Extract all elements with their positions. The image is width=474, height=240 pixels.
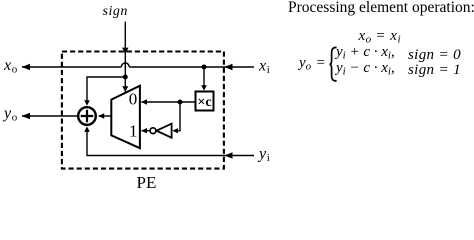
svg-text:o: o xyxy=(12,112,18,124)
svg-text:i: i xyxy=(267,64,270,76)
node: junction dot on c·x wire feeding inverter xyxy=(178,100,183,105)
arrowhead y_i entering PE box (pointing left) xyxy=(224,152,232,159)
svg-text:1: 1 xyxy=(129,122,138,141)
wire: mux output to adder right input xyxy=(98,113,111,118)
wire: multiplier output to mux input 0 xyxy=(141,99,195,104)
wire: branch down from c·x wire to inverter input xyxy=(172,102,180,133)
wire: y_i horizontal line into box and up to adder bottom xyxy=(84,126,254,155)
svg-text:y: y xyxy=(257,145,267,162)
svg-text:y: y xyxy=(2,105,12,122)
arrowhead at x_o output (left, pointing left) xyxy=(22,64,30,71)
equation x_o = x_i xyxy=(359,28,401,45)
mux U1 (trapezoid 2:1 multiplexer) xyxy=(111,86,140,149)
inverter bubble xyxy=(150,128,156,134)
wire: inverter output to mux input 1 xyxy=(141,128,150,133)
svg-text:0: 0 xyxy=(129,89,138,108)
equation y_o = xyxy=(299,55,311,72)
wire: x_i to x_o horizontal line with hop over sign wire xyxy=(22,63,254,67)
node: junction dot on sign wire for carry-in branch xyxy=(123,75,128,80)
equation case 1 xyxy=(336,44,395,61)
wire: carry-in branch from sign dot to adder top xyxy=(84,77,125,106)
svg-text:×c: ×c xyxy=(197,95,211,110)
arrowhead x_i entering PE box (pointing left) xyxy=(224,64,232,71)
arrowhead sign into mux select (pointing down) xyxy=(122,86,128,92)
arrowhead at y_o output (pointing left) xyxy=(22,113,30,120)
svg-text:o: o xyxy=(12,64,18,76)
node: junction dot on x wire feeding multiplier xyxy=(202,65,207,70)
svg-text:PE: PE xyxy=(137,173,157,190)
adder U2 (circle with plus) xyxy=(78,107,96,125)
PE dashed boundary box xyxy=(62,52,224,169)
inverter U4 (triangle) xyxy=(156,124,171,138)
equation case 2 xyxy=(336,60,395,77)
multiplier U3 box ×c xyxy=(196,92,214,111)
wire: y_o output from adder to left xyxy=(22,115,78,117)
title: Processing element operation: xyxy=(288,0,474,17)
wire: x line down to multiplier ×c xyxy=(201,67,207,91)
svg-text:i: i xyxy=(267,152,270,164)
arrowhead sign entering PE box (pointing down) xyxy=(122,48,128,55)
equation case brace xyxy=(330,47,337,81)
svg-text:sign: sign xyxy=(103,4,128,19)
svg-text:x: x xyxy=(3,57,11,74)
svg-text:x: x xyxy=(258,58,266,75)
wire: sign vertical line xyxy=(124,22,126,92)
